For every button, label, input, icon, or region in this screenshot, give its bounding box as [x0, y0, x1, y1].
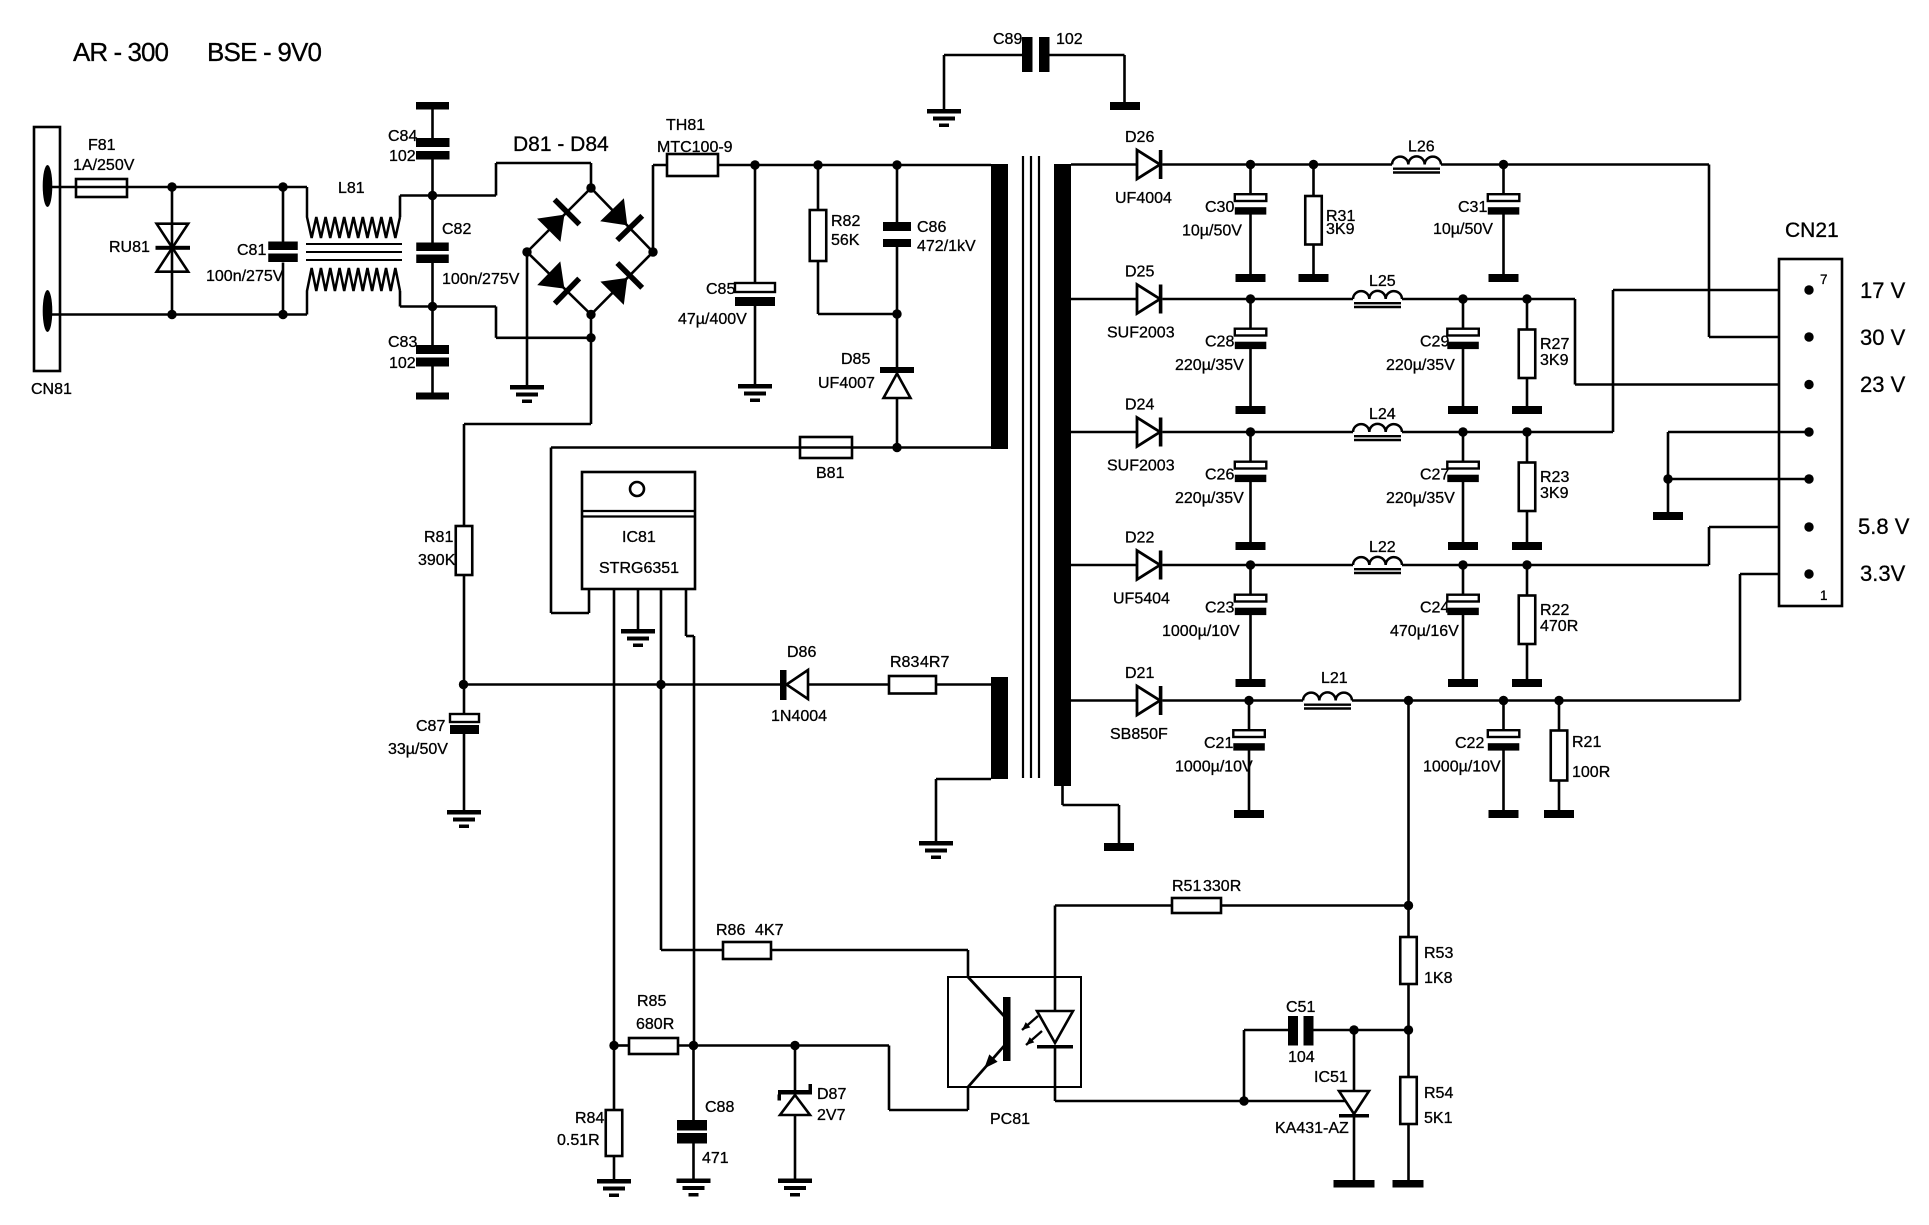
junction: [750, 160, 759, 169]
svg-text:1: 1: [1820, 588, 1828, 603]
wire: [1061, 786, 1064, 805]
wire: [464, 423, 591, 426]
svg-text:KA431-AZ: KA431-AZ: [1275, 1120, 1349, 1137]
junction: [1246, 427, 1255, 436]
svg-text:D81 - D84: D81 - D84: [513, 133, 609, 156]
svg-text:D85: D85: [841, 351, 870, 368]
thermistor TH81: [667, 154, 718, 176]
svg-text:220µ/35V: 220µ/35V: [1175, 357, 1244, 374]
junction: [1522, 427, 1531, 436]
ground: [927, 109, 961, 114]
svg-text:C82: C82: [442, 221, 471, 238]
capacitor C89: [944, 54, 1022, 57]
svg-text:SB850F: SB850F: [1110, 726, 1168, 743]
wire: [495, 163, 498, 196]
svg-text:47µ/400V: 47µ/400V: [678, 311, 747, 328]
svg-text:B81: B81: [816, 465, 845, 482]
capacitor C28: [1249, 299, 1252, 329]
wire: [1668, 431, 1809, 434]
wire: [1163, 163, 1393, 166]
capacitor C81: [282, 187, 285, 242]
ground: [1104, 843, 1134, 851]
junction: [1499, 696, 1508, 705]
svg-text:7: 7: [1820, 272, 1828, 287]
inductor L25: [1353, 291, 1402, 299]
connector pin: [1804, 569, 1813, 578]
svg-text:PC81: PC81: [990, 1111, 1030, 1128]
wire: [590, 315, 593, 425]
svg-text:L24: L24: [1369, 406, 1396, 423]
junction: [790, 1041, 799, 1050]
svg-text:C24: C24: [1420, 600, 1449, 617]
svg-text:C30: C30: [1205, 199, 1234, 216]
svg-text:1K8: 1K8: [1424, 970, 1453, 987]
diode D24 SUF2003: [1137, 418, 1160, 447]
svg-text:390K: 390K: [418, 552, 456, 569]
resistor R82: [817, 165, 820, 210]
wire: [1402, 431, 1613, 434]
connector pin: [1804, 474, 1813, 483]
capacitor C27: [1462, 432, 1465, 462]
svg-text:R86: R86: [716, 922, 745, 939]
ground: [1236, 406, 1266, 414]
junction: [1404, 1025, 1413, 1034]
ground: [1448, 406, 1478, 414]
junction: [892, 309, 901, 318]
svg-text:L81: L81: [338, 180, 365, 197]
junction: [1246, 560, 1255, 569]
svg-text:IC51: IC51: [1314, 1069, 1348, 1086]
pin 4 wire: [660, 589, 663, 950]
capacitor C51: [1243, 1030, 1246, 1101]
wire: [495, 307, 498, 338]
svg-text:56K: 56K: [831, 232, 860, 249]
ground: [919, 841, 953, 846]
inductor L81 (common-mode choke): [307, 187, 400, 238]
svg-text:30 V: 30 V: [1860, 325, 1906, 350]
wire: [1352, 699, 1740, 702]
wire: [464, 683, 780, 686]
svg-text:D26: D26: [1125, 129, 1154, 146]
wire to CN21 30V: [1708, 165, 1711, 338]
svg-text:1000µ/10V: 1000µ/10V: [1423, 759, 1501, 776]
svg-text:R51: R51: [1172, 878, 1201, 895]
svg-text:102: 102: [389, 148, 416, 165]
junction: [892, 443, 901, 452]
svg-text:UF5404: UF5404: [1113, 591, 1170, 608]
capacitor C31: [1502, 165, 1505, 195]
wire: [1163, 699, 1304, 702]
svg-text:680R: 680R: [636, 1016, 674, 1033]
svg-text:470µ/16V: 470µ/16V: [1390, 623, 1459, 640]
junction: [586, 310, 595, 319]
ground: [597, 1179, 631, 1184]
wire: [526, 252, 529, 385]
ground: [1489, 810, 1519, 818]
svg-text:2V7: 2V7: [817, 1107, 846, 1124]
svg-text:UF4004: UF4004: [1115, 190, 1172, 207]
svg-text:R81: R81: [424, 529, 453, 546]
svg-text:C84: C84: [388, 128, 417, 145]
capacitor C26: [1249, 432, 1252, 462]
junction: [1244, 696, 1253, 705]
svg-text:R82: R82: [831, 213, 860, 230]
svg-text:C23: C23: [1205, 600, 1234, 617]
ground: [1110, 102, 1140, 110]
wire: [1163, 431, 1354, 434]
svg-text:C29: C29: [1420, 334, 1449, 351]
junction: [1309, 160, 1318, 169]
ground: [1544, 810, 1574, 818]
capacitor C82: [431, 196, 434, 243]
svg-text:MTC100-9: MTC100-9: [657, 139, 733, 156]
junction: [167, 310, 176, 319]
svg-text:R54: R54: [1424, 1085, 1453, 1102]
diode D21 SB850F: [1137, 686, 1160, 715]
junction: [656, 680, 665, 689]
wire: [1407, 984, 1410, 1077]
wire: [1054, 1049, 1057, 1102]
svg-text:R84: R84: [575, 1110, 604, 1127]
wire: [943, 55, 946, 109]
junction: [1522, 560, 1531, 569]
junction: [1404, 696, 1413, 705]
resistor R54: [1400, 1077, 1417, 1124]
ground: [1236, 274, 1266, 282]
svg-text:C83: C83: [388, 334, 417, 351]
svg-text:10µ/50V: 10µ/50V: [1182, 223, 1242, 240]
junction: [813, 160, 822, 169]
IC IC81 STRG6351: [550, 448, 553, 614]
wire to CN21 23V: [1574, 299, 1577, 385]
svg-text:BSE - 9V0: BSE - 9V0: [207, 37, 322, 67]
resistor R84: [613, 1046, 616, 1111]
junction: [1458, 560, 1467, 569]
ground: [677, 1179, 711, 1184]
svg-text:10µ/50V: 10µ/50V: [1433, 221, 1493, 238]
junction: [428, 302, 437, 311]
ground: [1234, 810, 1264, 818]
wire: [1163, 298, 1354, 301]
capacitor C22: [1502, 701, 1505, 731]
svg-text:R22: R22: [1540, 602, 1569, 619]
ground: [1448, 542, 1478, 550]
transformer secondary winding: [1054, 164, 1071, 786]
svg-text:D24: D24: [1125, 397, 1154, 414]
svg-text:UF4007: UF4007: [818, 375, 875, 392]
svg-text:R21: R21: [1572, 734, 1601, 751]
ground: [1512, 542, 1542, 550]
ground: [1448, 679, 1478, 687]
svg-text:0.51R: 0.51R: [557, 1132, 600, 1149]
ground: [1236, 679, 1266, 687]
svg-text:L21: L21: [1321, 670, 1348, 687]
svg-text:330R: 330R: [1203, 878, 1241, 895]
resistor R27: [1526, 299, 1529, 330]
fuse B81: [800, 437, 852, 458]
ground: [621, 629, 655, 634]
svg-text:1000µ/10V: 1000µ/10V: [1162, 623, 1240, 640]
wire: [551, 446, 991, 449]
resistor R23: [1526, 432, 1529, 463]
wire: [1071, 431, 1137, 434]
svg-text:33µ/50V: 33µ/50V: [388, 741, 448, 758]
resistor R31: [1312, 165, 1315, 197]
connector pin: [1804, 285, 1813, 294]
shunt regulator IC51 KA431-AZ: [1353, 1030, 1356, 1091]
svg-text:3K9: 3K9: [1540, 485, 1569, 502]
svg-text:220µ/35V: 220µ/35V: [1175, 490, 1244, 507]
svg-text:C28: C28: [1205, 334, 1234, 351]
svg-text:17 V: 17 V: [1860, 278, 1906, 303]
svg-text:100n/275V: 100n/275V: [206, 268, 284, 285]
junction: [1499, 160, 1508, 169]
junction: [459, 680, 468, 689]
diode D22 UF5404: [1137, 551, 1160, 580]
transformer primary winding 2 (aux): [991, 677, 1008, 779]
wire: [1071, 564, 1137, 567]
svg-text:R53: R53: [1424, 945, 1453, 962]
transformer core: [1022, 156, 1024, 778]
inductor L24: [1353, 424, 1402, 432]
svg-text:D22: D22: [1125, 530, 1154, 547]
svg-text:102: 102: [389, 355, 416, 372]
ground: [1299, 274, 1329, 282]
wire: [1163, 564, 1354, 567]
svg-text:1A/250V: 1A/250V: [73, 157, 135, 174]
svg-text:3K9: 3K9: [1326, 221, 1355, 238]
svg-text:23 V: 23 V: [1860, 372, 1906, 397]
junction: [586, 333, 595, 342]
resistor R83: [889, 676, 936, 694]
capacitor C29: [1462, 299, 1465, 329]
diode D26 UF4004: [1137, 150, 1160, 179]
capacitor C21: [1248, 701, 1251, 731]
ground: [1512, 406, 1542, 414]
svg-text:220µ/35V: 220µ/35V: [1386, 357, 1455, 374]
zener D87: [794, 1046, 797, 1091]
wire: [399, 196, 402, 218]
svg-text:220µ/35V: 220µ/35V: [1386, 490, 1455, 507]
junction: [1554, 696, 1563, 705]
svg-text:C86: C86: [917, 219, 946, 236]
svg-text:D87: D87: [817, 1086, 846, 1103]
svg-text:CN21: CN21: [1785, 219, 1839, 242]
ground: [1334, 1180, 1375, 1188]
svg-text:R23: R23: [1540, 469, 1569, 486]
pin 2 wire: [613, 589, 616, 1046]
junction: [1246, 160, 1255, 169]
svg-text:C21: C21: [1204, 735, 1233, 752]
wire: [653, 164, 991, 167]
svg-text:D86: D86: [787, 644, 816, 661]
wire: [1123, 55, 1126, 102]
optocoupler PC81: [948, 977, 1081, 1087]
svg-text:C85: C85: [706, 281, 735, 298]
junction: [648, 247, 657, 256]
wire to CN21 5.8V: [1708, 527, 1711, 565]
wire: [1071, 298, 1137, 301]
svg-text:3K9: 3K9: [1540, 352, 1569, 369]
svg-text:C22: C22: [1455, 735, 1484, 752]
wire: [1407, 701, 1410, 938]
svg-text:100n/275V: 100n/275V: [442, 271, 520, 288]
svg-text:L26: L26: [1408, 139, 1435, 156]
junction: [1239, 1096, 1248, 1105]
resistor R51: [1055, 904, 1172, 907]
wire: [52, 313, 307, 316]
junction: [278, 310, 287, 319]
capacitor C83: [431, 307, 434, 346]
inductor L21: [1303, 692, 1352, 700]
junction: [1246, 294, 1255, 303]
wire: [1402, 564, 1709, 567]
capacitor C30: [1249, 165, 1252, 195]
svg-text:471: 471: [702, 1150, 729, 1167]
svg-text:IC81: IC81: [622, 529, 656, 546]
resistor R85: [614, 1044, 629, 1047]
junction: [609, 1041, 618, 1050]
diode D85: [896, 314, 899, 367]
wire: [967, 1087, 970, 1110]
svg-text:AR - 300: AR - 300: [73, 37, 169, 67]
svg-text:SUF2003: SUF2003: [1107, 458, 1175, 475]
junction: [586, 183, 595, 192]
svg-text:C26: C26: [1205, 467, 1234, 484]
svg-text:C81: C81: [237, 242, 266, 259]
resistor R81: [456, 526, 473, 575]
junction: [1458, 294, 1467, 303]
svg-text:L22: L22: [1369, 539, 1396, 556]
connector pin: [1804, 427, 1813, 436]
wire to CN21 3.3V: [1739, 574, 1742, 701]
wire: [399, 291, 402, 307]
transformer primary winding 1: [991, 164, 1008, 449]
resistor R22: [1526, 565, 1529, 596]
ground: [447, 810, 481, 815]
svg-text:5K1: 5K1: [1424, 1110, 1453, 1127]
svg-text:1000µ/10V: 1000µ/10V: [1175, 759, 1253, 776]
capacitor C86: [896, 165, 899, 222]
junction: [1522, 294, 1531, 303]
svg-text:1N4004: 1N4004: [771, 708, 827, 725]
capacitor C24: [1462, 565, 1465, 595]
svg-text:C88: C88: [705, 1099, 734, 1116]
varistor RU81: [171, 187, 174, 315]
wire: [652, 165, 655, 252]
capacitor C85: [754, 165, 757, 283]
svg-text:472/1kV: 472/1kV: [917, 238, 976, 255]
svg-text:4R7: 4R7: [920, 654, 949, 671]
ground: [778, 1179, 812, 1184]
ground: [1653, 512, 1683, 520]
svg-text:C51: C51: [1286, 999, 1315, 1016]
junction: [1404, 901, 1413, 910]
ground: [738, 384, 772, 389]
wire: [1668, 478, 1809, 481]
capacitor C88: [692, 1046, 695, 1121]
resistor R21: [1558, 701, 1561, 731]
svg-text:R83: R83: [890, 654, 919, 671]
connector pin: [1804, 522, 1813, 531]
svg-text:100R: 100R: [1572, 764, 1610, 781]
ground: [1512, 679, 1542, 687]
wire: [1071, 163, 1137, 166]
svg-text:4K7: 4K7: [755, 922, 784, 939]
svg-text:470R: 470R: [1540, 618, 1578, 635]
capacitor C23: [1249, 565, 1252, 595]
diode D25 SUF2003: [1137, 285, 1160, 314]
svg-text:3.3V: 3.3V: [1860, 561, 1906, 586]
capacitor C87: [463, 685, 466, 715]
svg-text:CN81: CN81: [31, 381, 72, 398]
wire: [127, 186, 307, 189]
fuse F81: [76, 179, 127, 197]
connector pin: [1804, 380, 1813, 389]
connector CN21: [1779, 259, 1842, 606]
ground: [1489, 274, 1519, 282]
junction: [1349, 1025, 1358, 1034]
svg-text:SUF2003: SUF2003: [1107, 325, 1175, 342]
bridge rectifier D81-D84: [527, 188, 591, 252]
junction: [689, 1041, 698, 1050]
svg-text:5.8 V: 5.8 V: [1858, 514, 1910, 539]
pin 3 wire: [637, 589, 640, 629]
svg-text:R85: R85: [637, 993, 666, 1010]
ground: [1393, 1180, 1424, 1188]
svg-text:D25: D25: [1125, 264, 1154, 281]
svg-text:C27: C27: [1420, 467, 1449, 484]
svg-text:D21: D21: [1125, 665, 1154, 682]
svg-text:TH81: TH81: [666, 117, 705, 134]
pin 5 wire: [685, 589, 688, 636]
svg-text:C89: C89: [993, 31, 1022, 48]
svg-text:L25: L25: [1369, 273, 1396, 290]
ground: [1236, 542, 1266, 550]
wire: [1054, 906, 1057, 1012]
resistor R53: [1400, 937, 1417, 984]
connector CN81: [34, 127, 60, 371]
svg-text:F81: F81: [88, 137, 116, 154]
junction: [1663, 474, 1672, 483]
inductor L26: [1392, 156, 1441, 164]
wire: [1071, 699, 1137, 702]
wire: [1667, 479, 1670, 512]
junction: [167, 182, 176, 191]
ground: [510, 385, 544, 390]
connector pin: [1804, 332, 1813, 341]
svg-text:C31: C31: [1458, 199, 1487, 216]
svg-text:102: 102: [1056, 31, 1083, 48]
svg-text:C87: C87: [416, 718, 445, 735]
svg-text:104: 104: [1288, 1049, 1315, 1066]
inductor L22: [1353, 557, 1402, 565]
svg-text:STRG6351: STRG6351: [599, 560, 679, 577]
wire to CN21 17V: [1612, 290, 1615, 432]
junction: [1458, 427, 1467, 436]
wire: [52, 186, 76, 189]
junction: [892, 160, 901, 169]
svg-text:R27: R27: [1540, 336, 1569, 353]
wire: [1402, 298, 1575, 301]
junction: [522, 247, 531, 256]
wire: [1441, 163, 1709, 166]
diode D86: [780, 670, 787, 700]
wire: [936, 778, 991, 781]
junction: [278, 182, 287, 191]
svg-text:RU81: RU81: [109, 239, 150, 256]
capacitor C84: [416, 102, 449, 110]
